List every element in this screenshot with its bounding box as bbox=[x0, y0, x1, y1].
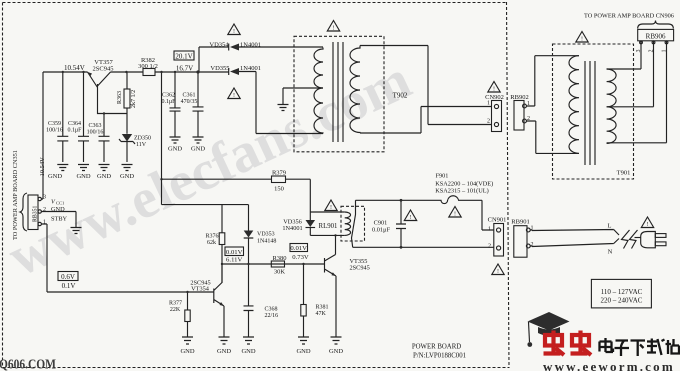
svg-text:GND: GND bbox=[51, 206, 65, 213]
svg-text:!: ! bbox=[647, 222, 649, 228]
svg-text:0.01V: 0.01V bbox=[290, 245, 307, 252]
svg-text:T902: T902 bbox=[393, 92, 408, 100]
svg-text:www.eeworm.com: www.eeworm.com bbox=[543, 359, 675, 371]
svg-text:POWER BOARD: POWER BOARD bbox=[412, 344, 461, 351]
svg-text:10.54V: 10.54V bbox=[64, 64, 85, 72]
svg-text:0.01μF: 0.01μF bbox=[372, 227, 390, 234]
svg-text:C901: C901 bbox=[374, 220, 388, 227]
svg-text:KSA2315 – 101(UL): KSA2315 – 101(UL) bbox=[435, 188, 489, 195]
svg-text:11V: 11V bbox=[136, 142, 147, 148]
svg-text:!: ! bbox=[233, 29, 235, 35]
svg-text:20.1V: 20.1V bbox=[175, 52, 192, 60]
svg-text:300 1/2: 300 1/2 bbox=[138, 63, 158, 70]
svg-text:2k7 1/2: 2k7 1/2 bbox=[131, 90, 137, 108]
svg-text:1N4001: 1N4001 bbox=[240, 42, 261, 49]
svg-text:KSA2200 – 104(VDE): KSA2200 – 104(VDE) bbox=[435, 181, 493, 188]
svg-text:C364: C364 bbox=[68, 121, 81, 127]
svg-text:!: ! bbox=[454, 212, 456, 218]
svg-text:6.11V: 6.11V bbox=[226, 257, 242, 264]
svg-text:GND: GND bbox=[97, 173, 111, 180]
svg-text:GND: GND bbox=[329, 348, 343, 355]
svg-text:F901: F901 bbox=[436, 173, 449, 180]
svg-text:GND: GND bbox=[168, 146, 182, 153]
svg-text:VT354: VT354 bbox=[191, 286, 210, 293]
svg-text:10.54V: 10.54V bbox=[39, 157, 46, 177]
svg-text:VD354: VD354 bbox=[209, 42, 229, 49]
svg-text:0.1μF: 0.1μF bbox=[67, 128, 82, 134]
svg-text:0.6V: 0.6V bbox=[61, 273, 75, 281]
svg-text:TO POWER AMP BOARD CN351: TO POWER AMP BOARD CN351 bbox=[12, 150, 19, 240]
svg-text:R380: R380 bbox=[272, 255, 286, 262]
svg-text:C363: C363 bbox=[88, 123, 101, 129]
svg-text:RB902: RB902 bbox=[510, 94, 528, 101]
svg-text:GND: GND bbox=[76, 173, 90, 180]
svg-text:RB351: RB351 bbox=[33, 205, 39, 222]
svg-text:2: 2 bbox=[531, 242, 534, 248]
svg-text:N: N bbox=[608, 249, 613, 256]
svg-text:150: 150 bbox=[274, 186, 284, 193]
svg-text:VD355: VD355 bbox=[210, 65, 229, 72]
svg-text:C368: C368 bbox=[265, 307, 278, 313]
svg-text:RL901: RL901 bbox=[319, 223, 338, 230]
svg-text:1: 1 bbox=[488, 227, 491, 233]
svg-text:R377: R377 bbox=[169, 301, 182, 307]
svg-text:2: 2 bbox=[43, 207, 46, 213]
svg-text:!: ! bbox=[410, 215, 412, 221]
svg-text:1: 1 bbox=[487, 101, 490, 107]
svg-text:!: ! bbox=[581, 37, 583, 43]
svg-text:ZD350: ZD350 bbox=[134, 136, 151, 142]
svg-text:62k: 62k bbox=[207, 240, 216, 246]
svg-text:!: ! bbox=[333, 26, 335, 32]
svg-text:220 – 240VAC: 220 – 240VAC bbox=[601, 297, 643, 305]
svg-text:!: ! bbox=[497, 269, 499, 275]
svg-text:100/16: 100/16 bbox=[46, 128, 63, 134]
svg-text:0.1μF: 0.1μF bbox=[161, 99, 176, 105]
svg-text:GND: GND bbox=[296, 348, 310, 355]
svg-text:3: 3 bbox=[43, 195, 46, 201]
svg-text:2: 2 bbox=[487, 119, 490, 125]
svg-text:100/16: 100/16 bbox=[87, 130, 104, 136]
svg-text:GND: GND bbox=[120, 173, 134, 180]
svg-text:R379: R379 bbox=[272, 170, 286, 177]
svg-text:C359: C359 bbox=[48, 121, 61, 127]
svg-text:RB901: RB901 bbox=[511, 219, 529, 226]
svg-text:22K: 22K bbox=[170, 307, 181, 313]
svg-text:1N4001: 1N4001 bbox=[282, 225, 302, 232]
svg-text:1N4148: 1N4148 bbox=[257, 239, 276, 245]
svg-text:P/N:LVP0188C001: P/N:LVP0188C001 bbox=[413, 353, 466, 360]
svg-text:GND: GND bbox=[217, 348, 231, 355]
svg-text:2: 2 bbox=[649, 49, 655, 52]
svg-text:RB906: RB906 bbox=[646, 33, 666, 41]
svg-text:47K: 47K bbox=[316, 311, 327, 317]
svg-text:T901: T901 bbox=[617, 170, 631, 177]
svg-text:STBY: STBY bbox=[51, 216, 68, 223]
svg-text:GND: GND bbox=[180, 348, 194, 355]
svg-text:C361: C361 bbox=[182, 93, 195, 99]
svg-text:22/16: 22/16 bbox=[265, 313, 279, 319]
svg-text:R363: R363 bbox=[117, 91, 123, 104]
svg-text:R376: R376 bbox=[205, 234, 218, 240]
svg-text:!: ! bbox=[493, 87, 495, 93]
svg-text:CN901: CN901 bbox=[488, 217, 507, 224]
svg-text:2: 2 bbox=[488, 244, 491, 250]
svg-text:2SC945: 2SC945 bbox=[350, 265, 370, 272]
svg-text:0.01V: 0.01V bbox=[226, 249, 243, 256]
svg-text:C362: C362 bbox=[162, 93, 175, 99]
svg-text:R381: R381 bbox=[316, 305, 329, 311]
svg-text:1N4001: 1N4001 bbox=[240, 65, 261, 72]
svg-text:GND: GND bbox=[241, 348, 255, 355]
svg-text:VD353: VD353 bbox=[257, 232, 275, 238]
svg-text:110 – 127VAC: 110 – 127VAC bbox=[601, 288, 643, 296]
svg-text:0.73V: 0.73V bbox=[292, 254, 309, 261]
svg-text:!: ! bbox=[330, 205, 332, 211]
svg-text:2SC945: 2SC945 bbox=[93, 66, 114, 73]
svg-text:GND: GND bbox=[48, 173, 62, 180]
svg-text:TO POWER AMP BOARD CN906: TO POWER AMP BOARD CN906 bbox=[584, 13, 674, 20]
svg-text:30K: 30K bbox=[274, 269, 286, 276]
svg-text:L: L bbox=[608, 223, 612, 230]
svg-text:GND: GND bbox=[191, 146, 205, 153]
svg-text:0.1V: 0.1V bbox=[62, 282, 76, 290]
svg-text:1: 1 bbox=[662, 49, 668, 52]
svg-text:16.7V: 16.7V bbox=[176, 65, 193, 73]
svg-text:Q606.COM: Q606.COM bbox=[0, 358, 56, 371]
svg-text:470/35: 470/35 bbox=[181, 99, 198, 105]
svg-text:CC1: CC1 bbox=[56, 201, 64, 206]
svg-text:3: 3 bbox=[636, 49, 642, 52]
svg-text:1: 1 bbox=[43, 220, 46, 226]
svg-text:!: ! bbox=[233, 93, 235, 99]
